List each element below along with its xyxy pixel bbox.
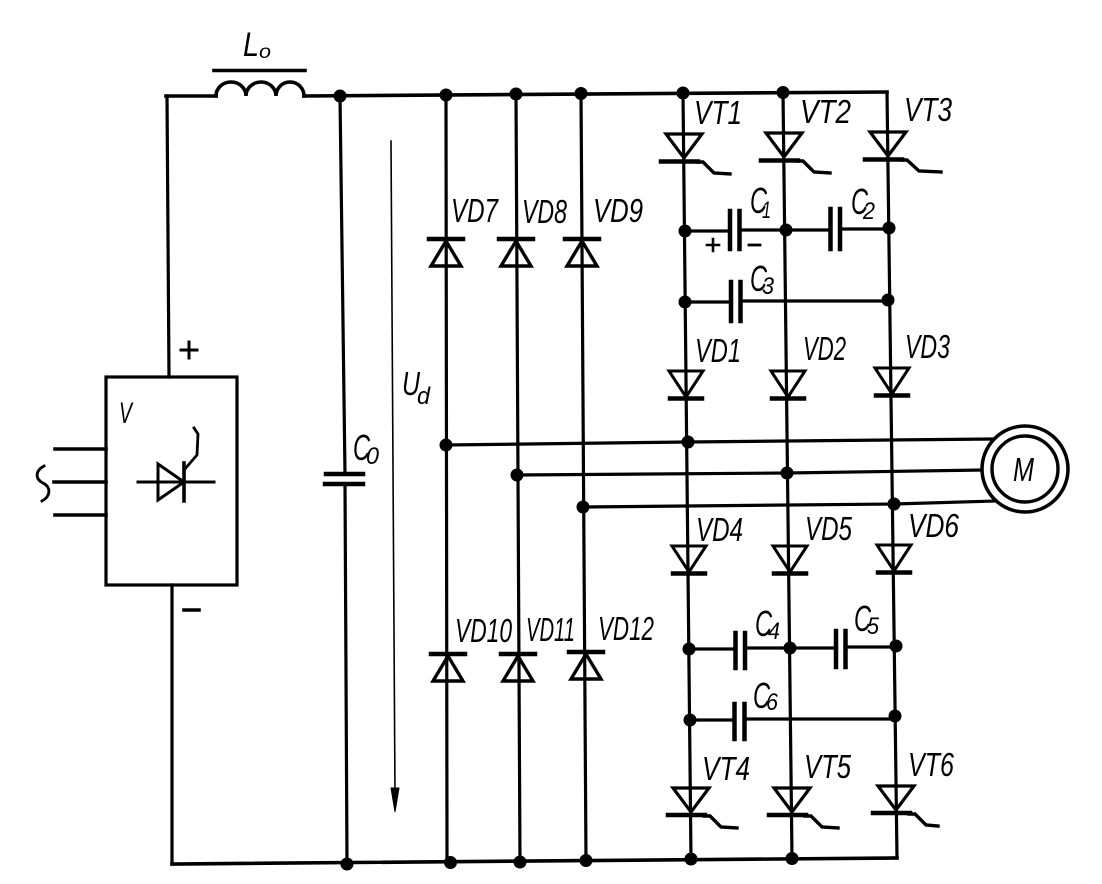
capacitor C0	[325, 96, 380, 864]
diode VD3	[875, 328, 950, 396]
diode VD1	[669, 332, 741, 399]
svg-text:VD3: VD3	[905, 328, 950, 365]
junction: top rail / column D	[677, 87, 690, 100]
svg-text:VD5: VD5	[805, 510, 852, 547]
AC input line 1	[55, 447, 106, 451]
junction: phase C / column F	[888, 498, 901, 511]
junction: bottom rail / column D	[685, 853, 698, 866]
capacitor C3	[685, 258, 888, 321]
junction: C3 row / column F	[882, 294, 895, 307]
AC input line 3	[55, 513, 106, 517]
thyristor VT4	[668, 750, 750, 828]
rectifier V	[106, 342, 237, 610]
junction: C3 row / column D	[679, 296, 692, 309]
junction: bottom rail / C0	[341, 858, 354, 871]
junction: C4-C5 row / column E	[784, 642, 797, 655]
junction: C6 row / column F	[889, 710, 902, 723]
junction: bottom rail / column E	[786, 852, 799, 865]
svg-text:VT6: VT6	[908, 746, 954, 783]
junction: top rail / column A	[440, 89, 453, 102]
wire: left vertical from top rail to rectifier plus terminal	[167, 96, 169, 377]
wire: top rail left segment	[166, 94, 216, 98]
capacitor C2	[786, 181, 889, 249]
junction: C4 row / column D	[683, 643, 696, 656]
svg-text:VD9: VD9	[593, 192, 643, 229]
junction: phase C / column C	[577, 501, 590, 514]
diode VD7	[429, 192, 499, 266]
junction: C2 row / column F	[883, 222, 896, 235]
svg-text:5: 5	[867, 613, 880, 640]
thyristor VT3	[865, 91, 953, 172]
wire: phase B to motor	[517, 470, 982, 475]
junction: top rail / C0	[334, 90, 347, 103]
wire: rectifier minus lead down to bottom rail	[170, 585, 173, 864]
svg-text:VT4: VT4	[702, 750, 750, 787]
node Ud: arrow and label	[391, 141, 431, 812]
junction: top rail / column E	[777, 86, 790, 99]
wire: top rail right segment	[304, 92, 887, 96]
svg-text:VT5: VT5	[804, 748, 851, 785]
svg-text:1: 1	[762, 197, 771, 224]
svg-text:L: L	[243, 26, 259, 64]
junction: phase A / column A	[440, 439, 453, 452]
diode VD8	[499, 193, 567, 266]
wire: column B (VD8/VD11)	[516, 94, 520, 862]
wire: column C (VD9/VD12)	[581, 93, 586, 860]
inductor L0	[214, 26, 305, 96]
thyristor VT5	[769, 748, 851, 828]
diode VD10	[431, 612, 512, 681]
svg-text:2: 2	[862, 198, 875, 225]
svg-text:6: 6	[766, 689, 779, 716]
wire: column A (VD7/VD10)	[446, 95, 447, 863]
junction: C5 row / column F	[890, 640, 903, 653]
thyristor VT1	[661, 94, 742, 174]
capacitor C1	[685, 180, 786, 251]
junction: top rail / column B	[510, 88, 523, 101]
diode VD11	[501, 611, 575, 681]
svg-text:VD1: VD1	[695, 332, 741, 369]
svg-text:VD7: VD7	[451, 192, 499, 229]
AC input line 2	[54, 480, 106, 484]
AC tilde symbol	[37, 466, 49, 501]
diode VD4	[672, 511, 743, 574]
svg-text:VD6: VD6	[908, 507, 960, 544]
diode VD6	[877, 507, 960, 573]
capacitor C6	[690, 675, 895, 739]
junction: C6 row / column D	[684, 714, 697, 727]
svg-text:o: o	[259, 42, 271, 63]
svg-text:VT3: VT3	[904, 91, 953, 128]
svg-text:VD4: VD4	[696, 511, 743, 548]
svg-text:M: M	[1013, 451, 1034, 488]
junction: top rail / column C	[575, 87, 588, 100]
svg-text:VD8: VD8	[522, 193, 567, 230]
wire: column E (VT2/VD2/VD5/VT5)	[783, 92, 792, 858]
thyristor VT6	[873, 746, 954, 826]
svg-text:VD12: VD12	[598, 610, 654, 647]
wire: column D (VT1/VD1/VD4/VT4)	[683, 93, 691, 859]
capacitor C5	[790, 598, 896, 667]
svg-text:VT1: VT1	[694, 94, 742, 131]
wire: column F (VT3/VD3/VD6/VT6)	[887, 92, 897, 858]
diode VD5	[773, 510, 852, 574]
junction: C1 row / column D	[679, 225, 692, 238]
junction: C1-C2 row / column E	[780, 224, 793, 237]
svg-text:0: 0	[366, 443, 380, 470]
wire: bottom rail	[172, 858, 897, 864]
svg-text:VD10: VD10	[455, 612, 512, 649]
motor M	[982, 426, 1068, 512]
junction: phase B / column E	[781, 467, 794, 480]
svg-text:VD11: VD11	[526, 611, 575, 648]
wire: phase C to motor	[583, 501, 996, 507]
junction: bottom rail / column B	[514, 856, 527, 869]
capacitor C4	[689, 603, 790, 668]
thyristor VT2	[761, 93, 851, 173]
diode VD9	[565, 192, 643, 266]
junction: phase A / column D	[682, 436, 695, 449]
junction: bottom rail / column A	[444, 856, 457, 869]
junction: phase B / column B	[511, 469, 524, 482]
diode VD2	[771, 330, 846, 399]
svg-text:VT2: VT2	[800, 93, 851, 130]
svg-text:V: V	[119, 397, 134, 430]
wire: phase A to motor	[446, 439, 992, 445]
diode VD12	[569, 610, 654, 679]
svg-text:4: 4	[768, 618, 780, 645]
junction: bottom rail / column C	[580, 854, 593, 867]
svg-text:d: d	[417, 383, 431, 410]
svg-text:3: 3	[762, 273, 775, 300]
svg-text:VD2: VD2	[803, 330, 846, 367]
